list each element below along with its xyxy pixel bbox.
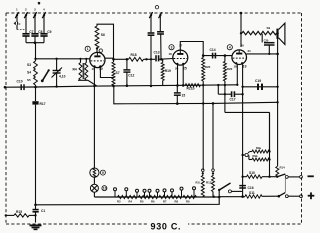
V2 filament leg right: [182, 65, 184, 86]
chain tap t1: [114, 188, 117, 191]
svg-text:R4: R4: [129, 200, 133, 204]
resistor R19: [162, 59, 164, 62]
resistor R20: [202, 56, 204, 58]
capacitor C15: [176, 85, 178, 92]
junction lower rail: [212, 102, 215, 105]
V1 screen wire: [105, 57, 114, 59]
pickup terminal right: [159, 12, 162, 18]
junction R20 top: [202, 54, 205, 57]
resistor R15: [6, 214, 14, 216]
svg-text:4: 4: [229, 45, 231, 49]
wire down to R17: [35, 87, 37, 101]
choke S11: [219, 196, 245, 198]
svg-text:S11: S11: [249, 191, 255, 195]
svg-text:3: 3: [171, 45, 173, 49]
loudspeaker: [276, 29, 278, 39]
svg-text:930 C.: 930 C.: [151, 222, 182, 232]
variable capacitor C11: [56, 59, 58, 70]
wire R20 down: [202, 85, 204, 170]
svg-text:R19: R19: [165, 69, 171, 73]
anode coil S6: [96, 48, 98, 52]
minus feed wire: [262, 176, 277, 178]
valve V2: [173, 50, 188, 65]
aerial cap bus wire: [26, 42, 44, 44]
wire S7 to lower rail: [114, 86, 278, 104]
wire C13 to V2 grid: [159, 58, 173, 61]
capacitor C1: [33, 209, 39, 211]
coupling wire C14: [203, 55, 232, 57]
wire to R12: [212, 103, 214, 169]
ground: [30, 224, 42, 226]
speaker return wire: [277, 33, 279, 54]
lamp wire: [93, 177, 95, 184]
svg-text:R9: R9: [186, 200, 190, 204]
capacitor C19: [243, 86, 278, 88]
capacitor C13: [155, 55, 157, 61]
grid wire tuner to V1: [36, 58, 91, 60]
wire R22 down: [224, 85, 226, 112]
V3 grid lead: [231, 55, 233, 57]
caption 930 C.: [148, 221, 188, 232]
svg-text:R8: R8: [175, 200, 179, 204]
aerial coil secondary: [85, 63, 88, 81]
svg-text:18: 18: [234, 65, 238, 69]
resistor R14: [276, 165, 278, 168]
resistor R22: [224, 54, 227, 57]
coil core: [82, 63, 84, 79]
aerial terminal 3: [33, 12, 36, 18]
svg-text:C14: C14: [210, 48, 216, 52]
valve V3: [232, 50, 247, 65]
minus sign: [308, 175, 314, 177]
switch plus: [279, 193, 286, 197]
capacitor C17: [217, 85, 219, 94]
wire speaker line down: [277, 54, 279, 166]
svg-text:R12: R12: [206, 181, 212, 185]
V3 anode wire: [240, 13, 242, 47]
oscillator coil S7: [112, 62, 115, 86]
svg-text:R9a: R9a: [256, 146, 261, 150]
trimmer on terminal 1: [16, 17, 18, 23]
aerial coil primary: [79, 63, 82, 81]
barretter lamp: [90, 168, 99, 177]
svg-text:26: 26: [175, 67, 179, 71]
aerial terminal 2: [24, 12, 27, 18]
plug arrow R10: [202, 169, 205, 172]
chain tap t5: [148, 189, 151, 192]
filament rail: [94, 196, 219, 198]
aerial terminal 4: [42, 12, 45, 18]
switch minus: [277, 174, 285, 177]
svg-text:C10: C10: [17, 80, 23, 84]
V1 filament leg right: [100, 67, 113, 78]
svg-text:R6: R6: [151, 200, 155, 204]
svg-text:R20: R20: [205, 65, 211, 69]
svg-text:S5: S5: [27, 78, 31, 82]
wire C16 to rail: [242, 191, 244, 196]
pickup jack ring: [155, 6, 158, 9]
plus sign: [308, 195, 315, 197]
chain tap t8: [171, 189, 174, 192]
svg-text:C: C: [19, 22, 21, 26]
capacitor C10: [20, 84, 22, 90]
chain tap t6: [156, 189, 159, 192]
svg-text:11: 11: [92, 67, 96, 71]
junction S7 ground rail: [112, 85, 115, 88]
plug arrow R12: [212, 169, 215, 172]
choke S10: [243, 176, 247, 178]
capacitor C7: [25, 16, 27, 33]
svg-text:16: 16: [169, 52, 173, 56]
V3 output wire right: [246, 53, 277, 55]
anode wire top: [97, 24, 114, 59]
svg-text:R17: R17: [40, 102, 46, 106]
plus feed wire: [262, 195, 279, 197]
resistor R17: [32, 101, 38, 104]
dial lamp: [90, 184, 98, 192]
V3 filament leg right: [242, 64, 244, 94]
svg-text:S9: S9: [267, 26, 271, 30]
V1 filament leg left: [93, 67, 95, 169]
wave band switch: [42, 70, 48, 81]
switch S arm: [218, 190, 220, 197]
capacitor C20: [261, 34, 263, 43]
svg-text:10: 10: [99, 67, 103, 71]
svg-text:C20: C20: [264, 38, 269, 42]
svg-text:R7: R7: [163, 200, 167, 204]
svg-text:R18: R18: [131, 53, 137, 57]
tuning coil S5: [34, 77, 38, 85]
svg-text:R10: R10: [196, 182, 201, 185]
junction tuner bottom: [34, 86, 37, 89]
svg-text:1: 1: [87, 47, 89, 51]
chain tap t7: [163, 189, 166, 192]
svg-text:S10: S10: [249, 171, 255, 175]
wire R17 to bottom: [35, 105, 37, 205]
svg-text:C9: C9: [47, 30, 51, 34]
svg-text:21: 21: [248, 49, 252, 53]
wire R18 to C13: [144, 58, 156, 60]
capacitor C14: [212, 53, 214, 59]
chain resistor S13: [118, 195, 138, 198]
capacitor C8: [34, 16, 36, 33]
aerial terminal 1: [15, 12, 18, 18]
bias wire down: [269, 112, 271, 176]
svg-text:R14: R14: [280, 166, 286, 170]
svg-text:S6: S6: [101, 33, 105, 37]
V2 filament leg left: [177, 65, 179, 86]
resistor R9a: [250, 151, 253, 153]
output choke S9: [242, 31, 277, 34]
svg-text:R3: R3: [117, 200, 121, 204]
rail drop: [36, 197, 220, 205]
chain tap t2: [125, 188, 128, 191]
capacitor C9: [43, 16, 45, 33]
resistor R10: [201, 176, 204, 197]
resistor R9b: [249, 159, 252, 161]
pickup terminal left: [149, 12, 152, 18]
svg-text:10: 10: [103, 186, 107, 190]
resistor R12: [212, 176, 215, 192]
chassis dashed border top: [6, 12, 302, 14]
svg-text:C16: C16: [248, 186, 254, 190]
svg-text:C1: C1: [41, 209, 45, 213]
svg-text:R22: R22: [227, 67, 233, 71]
svg-text:R9b: R9b: [253, 154, 258, 158]
wire bus to tuner: [35, 43, 37, 61]
svg-text:S4: S4: [27, 71, 31, 75]
junction R15: [34, 214, 36, 216]
mark above terminals: [38, 2, 40, 4]
chassis dashed border left: [5, 13, 7, 224]
svg-text:R4: R4: [73, 68, 77, 72]
chassis dashed border right: [301, 13, 303, 224]
resistor R18: [129, 57, 144, 61]
switch S contact: [228, 190, 231, 193]
bias network upper wire: [225, 111, 270, 113]
chain tap t10: [193, 187, 196, 190]
svg-text:9: 9: [102, 171, 104, 175]
capacitor C12: [126, 59, 128, 69]
junction C1 top: [34, 204, 37, 207]
resistor R21 on rail: [185, 84, 200, 87]
svg-text:C12: C12: [128, 74, 134, 78]
chain tap t3: [136, 189, 139, 192]
capacitor C16: [239, 185, 246, 187]
chain tap t9: [180, 187, 183, 190]
svg-text:R5: R5: [140, 200, 144, 204]
valve V1: [90, 52, 105, 67]
wire V1 to R18: [114, 58, 129, 60]
filament line V3 down: [242, 94, 244, 191]
coil bottom wire: [78, 79, 88, 81]
chassis dashed border bottom: [6, 223, 302, 225]
svg-text:R21b: R21b: [187, 87, 195, 91]
svg-text:C13: C13: [154, 51, 160, 55]
svg-text:C19: C19: [255, 79, 261, 83]
V2 anode wire: [180, 42, 203, 56]
bias network right wire: [269, 112, 271, 151]
svg-text:C17: C17: [230, 98, 236, 102]
svg-text:4,10: 4,10: [59, 75, 66, 79]
tuning coil S3: [34, 61, 38, 69]
pickup capacitor left: [150, 16, 152, 32]
junction rails right: [218, 196, 221, 199]
V3 filament leg left: [236, 64, 238, 85]
svg-text:15: 15: [182, 94, 186, 98]
ground rail left: [5, 86, 97, 87]
tuning coil S4: [34, 69, 38, 77]
bias tap terminal: [243, 154, 245, 156]
svg-text:19: 19: [243, 65, 247, 69]
switch gang link: [284, 175, 286, 193]
svg-text:S3: S3: [27, 63, 31, 67]
svg-text:R15: R15: [16, 210, 22, 214]
chain tap t4: [143, 189, 146, 192]
pickup capacitor right: [159, 16, 161, 31]
lamp wire to rail: [93, 192, 95, 197]
bias rail: [97, 85, 237, 86]
svg-text:S7: S7: [116, 71, 120, 75]
